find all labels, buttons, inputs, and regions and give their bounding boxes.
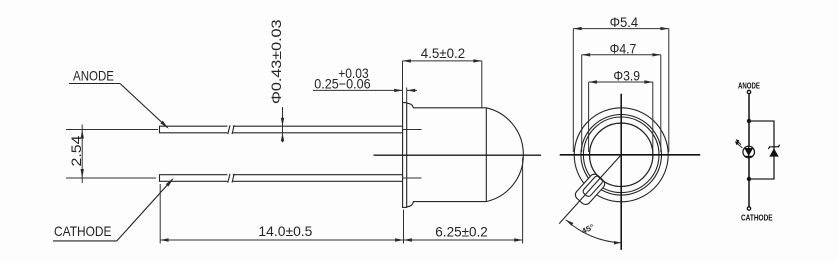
dimension 14.0 lead length: [160, 158, 522, 244]
svg-text:4.5±0.2: 4.5±0.2: [421, 46, 465, 61]
svg-text:6.25±0.2: 6.25±0.2: [435, 225, 488, 240]
dimension 4.5 epoxy body: [403, 46, 482, 108]
schematic branch wire to protection diode: [749, 121, 774, 179]
schematic junction top: [747, 119, 751, 123]
schematic LED symbol: [735, 139, 755, 158]
schematic protection diode (zener): [768, 145, 779, 157]
extension line above flange right edge: [406, 88, 408, 103]
svg-text:14.0±0.5: 14.0±0.5: [258, 224, 312, 239]
45 degree centerline: [559, 155, 621, 224]
lead cathode (bottom): [160, 173, 403, 183]
dimension 0.25 flange thickness: [313, 66, 417, 92]
label ANODE (side view): [69, 68, 169, 129]
front view centerlines: [560, 154, 701, 156]
angle dimension 45deg: [566, 220, 621, 245]
svg-text:2.54: 2.54: [69, 135, 84, 167]
label CATHODE (side view): [53, 178, 174, 241]
dimension dia 0.43 lead thickness: [269, 20, 284, 143]
centerline side view: [374, 154, 542, 156]
lead anode (top): [160, 125, 403, 135]
schematic wire main vertical: [748, 94, 750, 207]
svg-text:CATHODE: CATHODE: [741, 214, 773, 223]
dimension 2.54 lead spacing: [66, 125, 158, 184]
svg-text:Φ0.43±0.03: Φ0.43±0.03: [269, 20, 284, 105]
LED emission arrows: [737, 143, 742, 148]
svg-text:ANODE: ANODE: [73, 68, 114, 84]
dimension dia 3.9: [589, 69, 653, 153]
svg-text:Φ3.9: Φ3.9: [613, 69, 640, 84]
svg-text:Φ4.7: Φ4.7: [610, 41, 637, 56]
LED flange (side view): [403, 103, 407, 208]
lead stubs inside body: [403, 130, 422, 179]
dimension dia 4.7: [582, 41, 661, 152]
LED body outline (side view): [407, 103, 524, 207]
svg-text:ANODE: ANODE: [738, 82, 761, 91]
schematic anode terminal: [747, 90, 750, 93]
cathode tab on flange: [573, 172, 606, 206]
front view circles: [574, 108, 668, 202]
schematic cathode terminal: [747, 207, 750, 210]
svg-text:Φ5.4: Φ5.4: [610, 15, 639, 30]
svg-text:0.25−0.06: 0.25−0.06: [314, 77, 370, 92]
schematic junction bottom: [747, 177, 751, 181]
svg-text:CATHODE: CATHODE: [54, 223, 112, 239]
redraw inner circle over tab: [590, 123, 653, 186]
dimension dia 5.4: [573, 15, 669, 152]
